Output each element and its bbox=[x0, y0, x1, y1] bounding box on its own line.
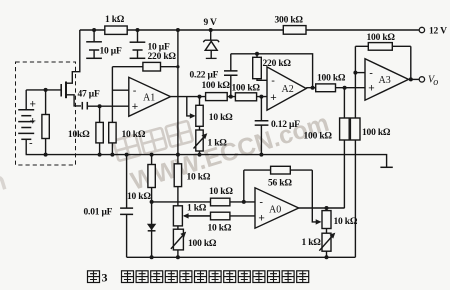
svg-text:A0: A0 bbox=[269, 204, 281, 215]
node dot A2 output junction bbox=[311, 86, 315, 90]
op-amp A2 bbox=[267, 67, 306, 110]
capacitor C 10μF (right, with ground) bbox=[130, 30, 177, 62]
zener diode D1 9V with ground bbox=[203, 30, 219, 58]
svg-text:10kΩ: 10kΩ bbox=[68, 130, 90, 140]
svg-text:+: + bbox=[258, 212, 264, 224]
node dot sensor bottom bbox=[44, 153, 48, 157]
resistor R 10kΩ (ref divider A, with diode) bbox=[127, 155, 155, 258]
node dot top rail at bias column bbox=[176, 28, 180, 32]
svg-text:100 kΩ: 100 kΩ bbox=[317, 74, 346, 84]
svg-text:10 μF: 10 μF bbox=[100, 47, 122, 57]
wire A0 inverting input bbox=[152, 201, 255, 203]
capacitor C 10μF (left, with ground) bbox=[86, 30, 122, 58]
caption 图3 红外测温仪测量系统基本电路 bbox=[88, 271, 309, 285]
svg-text:+: + bbox=[30, 116, 36, 128]
node dot A0 - feedback join bbox=[242, 200, 246, 204]
node dot A3 + input bbox=[343, 86, 347, 90]
svg-text:10 kΩ: 10 kΩ bbox=[208, 224, 232, 234]
svg-text:220 kΩ: 220 kΩ bbox=[148, 52, 177, 62]
svg-text:10 kΩ: 10 kΩ bbox=[122, 130, 146, 140]
op-amp A3 bbox=[365, 59, 409, 100]
node dots ground rail bbox=[98, 153, 264, 157]
svg-text:300 kΩ: 300 kΩ bbox=[275, 15, 304, 25]
svg-text:1 kΩ: 1 kΩ bbox=[208, 139, 228, 149]
node dots bottom rail bbox=[150, 255, 329, 259]
op-amp A1 bbox=[129, 77, 171, 116]
svg-text:A2: A2 bbox=[282, 84, 294, 95]
wire sensor top (gate) bbox=[26, 89, 61, 91]
resistor R 10kΩ (A0 +) bbox=[208, 212, 232, 233]
svg-text:100 kΩ: 100 kΩ bbox=[367, 33, 396, 43]
resistor R 1kΩ (top rail) bbox=[105, 15, 127, 34]
svg-text:9 V: 9 V bbox=[204, 18, 218, 28]
svg-text:10 kΩ: 10 kΩ bbox=[187, 172, 211, 182]
svg-text:10 kΩ: 10 kΩ bbox=[127, 192, 151, 202]
svg-text:o: o bbox=[433, 77, 438, 88]
wire A1 inverting input bbox=[112, 89, 128, 91]
ground symbol bbox=[380, 166, 392, 168]
wire bias column (9V to bottom) bbox=[177, 30, 179, 257]
node dot filter mid bbox=[229, 95, 233, 99]
wire A0 output bbox=[299, 207, 345, 209]
svg-text:100 kΩ: 100 kΩ bbox=[232, 83, 261, 93]
svg-text:A1: A1 bbox=[143, 93, 155, 104]
node dot top rail at cap2 bbox=[136, 28, 140, 32]
resistor R 100kΩ vertical left (A3 + to A0 out) bbox=[304, 88, 350, 208]
dashed sensor box bbox=[16, 62, 76, 165]
terminal 12V bbox=[419, 27, 447, 37]
svg-text:-: - bbox=[259, 196, 263, 208]
watermark tile middle "中电网" bbox=[113, 121, 193, 161]
node dot ref tap bbox=[150, 200, 154, 204]
resistor R 10kΩ (A1 - to ground) bbox=[109, 67, 146, 155]
node dot A1 output bbox=[198, 95, 202, 99]
svg-text:0.22 μF: 0.22 μF bbox=[190, 71, 219, 81]
node dot feedback/220k bbox=[255, 52, 259, 56]
transistor Q1 FET in sensor bbox=[61, 30, 81, 106]
svg-text:-: - bbox=[369, 67, 373, 79]
wire bottom reference rail bbox=[127, 256, 356, 258]
wire A0 noninverting input bbox=[184, 215, 255, 217]
resistor R 100kΩ (A2 out) bbox=[316, 74, 346, 92]
svg-text:12 V: 12 V bbox=[429, 27, 447, 37]
svg-text:+: + bbox=[368, 82, 374, 94]
resistor R 56kΩ (A0 feedback) bbox=[244, 166, 322, 224]
resistor R 220kΩ (A2 feedback) bbox=[253, 54, 292, 81]
resistor R 220kΩ (A1 bias) bbox=[112, 62, 177, 71]
svg-text:100 kΩ: 100 kΩ bbox=[304, 132, 333, 142]
wire A3 output bbox=[409, 78, 420, 80]
capacitor C 47μF bbox=[78, 90, 100, 110]
potentiometer 1kΩ (A1 output) bbox=[194, 130, 228, 151]
node 9V label and dot bbox=[204, 18, 218, 32]
svg-text:+: + bbox=[30, 99, 36, 111]
svg-text:0.01 μF: 0.01 μF bbox=[84, 208, 113, 218]
wire A3 inverting input bbox=[355, 72, 365, 74]
node dot A0 output bbox=[325, 206, 329, 210]
potentiometer 1kΩ (A0 offset) bbox=[302, 233, 336, 252]
svg-text:-: - bbox=[29, 138, 33, 150]
resistor R 10kΩ (A1 + to ground) bbox=[68, 106, 103, 154]
capacitor C 0.01μF bbox=[84, 155, 134, 258]
node dot A3 - bbox=[353, 71, 357, 75]
diode D2 (ref) bbox=[148, 224, 156, 231]
sensor shunt resistor bbox=[42, 90, 49, 155]
svg-text:+: + bbox=[132, 101, 138, 113]
op-amp A0 bbox=[255, 188, 299, 228]
svg-text:10 kΩ: 10 kΩ bbox=[209, 113, 233, 123]
terminal Vo bbox=[419, 75, 438, 88]
node dot A3 out bbox=[409, 77, 413, 81]
svg-text:1 kΩ: 1 kΩ bbox=[187, 203, 207, 213]
resistor R 100kΩ vertical right (A3 - to offset) bbox=[350, 73, 391, 258]
potentiometer 1kΩ (ref) bbox=[173, 203, 210, 226]
svg-text:100 kΩ: 100 kΩ bbox=[188, 239, 217, 249]
resistor R 100kΩ (A1 out a) bbox=[202, 81, 231, 101]
svg-text:100 kΩ: 100 kΩ bbox=[202, 81, 231, 91]
svg-text:+: + bbox=[270, 92, 276, 104]
wire A1 output to A2 input bbox=[171, 96, 268, 98]
svg-text:0.12 μF: 0.12 μF bbox=[271, 120, 300, 130]
svg-text:10 kΩ: 10 kΩ bbox=[334, 217, 358, 227]
node dot sensor top bbox=[44, 88, 48, 92]
wire A2 output to A3 bbox=[306, 87, 365, 89]
wire ground rail bbox=[26, 155, 387, 167]
capacitor C 0.12μF bbox=[255, 97, 300, 155]
svg-text:10 kΩ: 10 kΩ bbox=[209, 187, 233, 197]
node dot A1 + bias bbox=[98, 104, 102, 108]
thermopile detector stack bbox=[18, 90, 36, 155]
svg-text:1 kΩ: 1 kΩ bbox=[302, 238, 322, 248]
svg-text:1 kΩ: 1 kΩ bbox=[105, 15, 125, 25]
resistor R 100kΩ (A3 feedback) bbox=[355, 33, 410, 79]
svg-text:3: 3 bbox=[102, 271, 108, 285]
resistor R 300kΩ (top rail) bbox=[275, 15, 307, 34]
svg-text:47 μF: 47 μF bbox=[78, 90, 100, 100]
wire A2 feedback rail bbox=[231, 54, 313, 88]
svg-text:-: - bbox=[133, 85, 137, 97]
resistor R 100kΩ (filter b) bbox=[232, 83, 261, 100]
wire 9V/12V top supply rail bbox=[80, 29, 419, 31]
potentiometer 10kΩ (A0 gain) bbox=[322, 208, 358, 257]
node dot top rail at cap1 bbox=[92, 28, 96, 32]
resistor R 10kΩ (ref divider B) bbox=[174, 164, 211, 187]
svg-text:100 kΩ: 100 kΩ bbox=[362, 128, 391, 138]
svg-text:-: - bbox=[271, 75, 275, 87]
capacitor C 0.22μF bbox=[190, 54, 238, 97]
potentiometer 100kΩ (ref) bbox=[171, 229, 217, 250]
node dot bias/220k junction bbox=[176, 65, 179, 68]
node dot 0.12uF tap bbox=[259, 95, 263, 99]
svg-text:56 kΩ: 56 kΩ bbox=[268, 179, 292, 189]
svg-text:A3: A3 bbox=[379, 75, 391, 86]
potentiometer 10kΩ (A1 output) bbox=[187, 97, 233, 155]
wire A1 noninverting input bbox=[87, 105, 129, 107]
resistor R 10kΩ (A0 -) bbox=[209, 187, 233, 206]
